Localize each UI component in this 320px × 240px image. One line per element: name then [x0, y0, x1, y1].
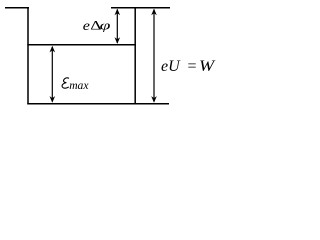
svg-text:=: =: [188, 58, 197, 75]
bottom level line: [27, 103, 169, 105]
svg-text:W: W: [199, 57, 216, 75]
svg-text:e: e: [83, 19, 90, 34]
label script-E max: [62, 78, 69, 88]
middle shelf (Fermi level): [27, 44, 136, 46]
arrow epsilon-max (double headed): [50, 46, 56, 103]
upper energy level left metal: [5, 7, 29, 9]
right potential wall: [134, 7, 136, 104]
svg-text:φ: φ: [100, 18, 111, 33]
upper energy level right metal: [111, 7, 170, 9]
svg-text:max: max: [69, 79, 89, 92]
arrow e-delta-phi (double headed): [115, 9, 121, 44]
arrow eU=W (double headed): [151, 9, 157, 103]
left potential wall: [27, 7, 29, 104]
svg-text:eU: eU: [161, 58, 181, 75]
